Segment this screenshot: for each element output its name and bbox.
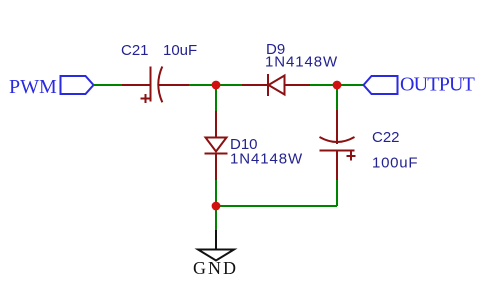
capacitor C22 bbox=[320, 110, 356, 180]
svg-text:C21: C21 bbox=[121, 42, 149, 59]
port PWM bbox=[61, 76, 94, 94]
wire C21 to D9 bbox=[189, 84, 242, 86]
svg-text:100uF: 100uF bbox=[372, 155, 418, 172]
wire junction2 down to C22 bbox=[336, 85, 338, 110]
svg-text:10uF: 10uF bbox=[163, 42, 197, 59]
wire junction1 down bbox=[215, 85, 217, 111]
capacitor C21 bbox=[122, 67, 189, 104]
diode D9 bbox=[242, 74, 310, 96]
svg-text:1N4148W: 1N4148W bbox=[265, 54, 338, 71]
svg-text:GND: GND bbox=[193, 258, 238, 278]
wire PWM to C21 bbox=[94, 84, 123, 86]
diode D10 bbox=[205, 111, 228, 180]
node junction 1 bbox=[212, 81, 221, 90]
svg-text:PWM: PWM bbox=[9, 76, 57, 98]
svg-text:1N4148W: 1N4148W bbox=[230, 151, 303, 168]
wire bottom right up to C22 bbox=[336, 180, 338, 206]
wire D10 to junction3 bbox=[215, 180, 217, 206]
ground GND bbox=[198, 230, 234, 261]
node junction 2 bbox=[333, 81, 342, 90]
port OUTPUT bbox=[364, 76, 398, 94]
svg-text:OUTPUT: OUTPUT bbox=[400, 74, 475, 96]
wire junction3 down to GND bbox=[215, 206, 217, 230]
wire bottom horizontal bbox=[216, 205, 337, 207]
node junction 3 bbox=[212, 202, 221, 211]
svg-text:C22: C22 bbox=[372, 129, 400, 146]
wire D9 to OUTPUT bbox=[310, 84, 364, 86]
